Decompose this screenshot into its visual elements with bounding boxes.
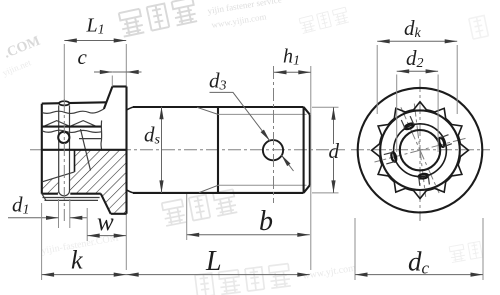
svg-text:d: d — [329, 139, 340, 163]
watermark bottom center — [195, 264, 291, 295]
break line diagonal — [81, 129, 91, 170]
head bottom silhouette 2 — [45, 199, 99, 201]
watermark mid small — [299, 7, 349, 33]
shank top edge — [133, 106, 304, 108]
watermark bottom right ghost — [449, 241, 482, 262]
hatch section head lower half — [42, 150, 127, 214]
head bottom left chamfer — [42, 194, 46, 201]
d1 hole slot walls — [59, 105, 70, 195]
axis centerline — [30, 149, 345, 151]
head right wavy edge — [100, 121, 103, 151]
svg-text:w: w — [97, 209, 114, 236]
svg-text:b: b — [259, 206, 273, 237]
cone bottom diagonal — [101, 194, 111, 214]
flange top edge — [112, 85, 126, 87]
dim L1 — [64, 15, 126, 222]
chamfer bottom — [304, 185, 310, 193]
head thick band line — [42, 126, 102, 128]
extension line flange face — [125, 44, 127, 270]
flange bottom edge — [111, 213, 127, 215]
chamfer tangent vertical — [303, 107, 305, 193]
chamfer top — [304, 107, 310, 115]
svg-text:L: L — [205, 246, 222, 277]
thread boundary vertical — [217, 107, 219, 193]
dim dk — [377, 16, 457, 114]
d3 hole circle — [263, 140, 283, 160]
hole centerline 14.5deg — [375, 138, 466, 162]
thread minor bottom — [218, 184, 307, 186]
dim d3 leader — [209, 69, 294, 172]
dim dc — [355, 218, 483, 280]
outer flange circle — [358, 88, 483, 213]
mid circle — [394, 124, 447, 177]
break line rising — [42, 172, 75, 182]
cone top diagonal — [104, 87, 113, 109]
dim d2 — [397, 46, 438, 152]
head solid center line — [42, 149, 127, 151]
dk circle — [380, 110, 460, 190]
end face — [309, 115, 311, 186]
thread minor top — [218, 113, 307, 115]
dim d1 — [8, 193, 87, 228]
thread runout bottom — [199, 185, 218, 192]
hole ellipse bottom — [418, 173, 429, 185]
dim h1 — [274, 46, 311, 271]
dim b — [187, 194, 310, 240]
dim c — [78, 45, 142, 86]
svg-text:c: c — [78, 45, 88, 69]
head bottom silhouette 1 — [43, 197, 100, 199]
hole ellipse top — [401, 116, 414, 130]
watermark center logo — [162, 189, 238, 226]
head top edge — [42, 102, 107, 103]
end axis vertical — [419, 79, 421, 221]
head scallop line upper — [42, 109, 104, 114]
head bottom face — [42, 193, 101, 195]
fillet bottom — [127, 190, 134, 193]
dim ds — [144, 107, 164, 193]
wedge vertical edge — [74, 150, 76, 172]
watermark top right ghost — [469, 15, 489, 39]
d1 hole slot white — [59, 151, 70, 196]
hole centerline 97deg — [414, 104, 425, 197]
shank bottom edge — [133, 192, 304, 194]
hole ellipse right — [438, 135, 452, 148]
flange right face — [125, 87, 127, 214]
watermark top left logo — [119, 0, 197, 37]
dim d — [312, 107, 340, 193]
fillet top — [127, 107, 134, 110]
dim k and L — [42, 203, 310, 280]
thread runout top — [197, 107, 218, 114]
d2 circle — [400, 130, 440, 170]
12 point star — [372, 102, 469, 199]
d1 hole front circle — [58, 132, 69, 143]
d1 hole top ellipse — [59, 101, 69, 105]
head scallop line lower — [42, 130, 102, 132]
d3 hole centerline — [273, 66, 275, 203]
hole ellipse left — [384, 152, 397, 164]
svg-text:k: k — [71, 246, 83, 275]
dim w — [87, 208, 126, 241]
head zigzag line — [44, 121, 97, 127]
head short line — [79, 138, 102, 140]
hole centerline 114deg — [401, 107, 439, 193]
head left face — [41, 104, 43, 194]
end axis horizontal — [351, 149, 490, 151]
